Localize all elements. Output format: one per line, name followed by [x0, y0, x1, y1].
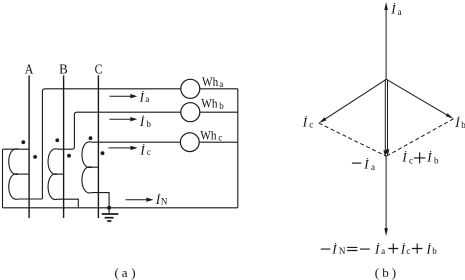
svg-text:İ: İ [454, 115, 460, 130]
svg-text:c: c [409, 156, 413, 166]
node: neutral junction dot [107, 206, 111, 210]
svg-text:C: C [95, 62, 103, 77]
arrow Ia annotation [110, 94, 138, 98]
wire a right of Wh_a to right bus [200, 88, 238, 90]
svg-text:N: N [161, 197, 168, 207]
svg-text:c: c [309, 120, 313, 130]
svg-text:İ: İ [139, 114, 145, 129]
svg-text:(b): (b) [375, 265, 396, 280]
wire b right of Wh_b to right bus [200, 111, 238, 113]
polarity dot CT3 secondary [101, 151, 105, 155]
equation -IN=-Ia+Ic+Ib [321, 242, 438, 257]
wire: left bus vertical [2, 149, 4, 208]
svg-text:a: a [145, 94, 149, 104]
svg-text:İ: İ [302, 115, 308, 130]
ground stem [108, 208, 110, 214]
svg-text:İ: İ [363, 157, 369, 172]
dashed line from Ib tip to sum point [386, 119, 453, 156]
phasor Ic+Ib double arrow right [386, 79, 390, 156]
wire: right bus vertical [237, 89, 239, 208]
svg-text:c: c [147, 147, 151, 157]
svg-text:Wh: Wh [200, 128, 217, 142]
polarity dot CT1 primary [21, 140, 25, 144]
svg-text:İ: İ [139, 142, 145, 157]
wire: CT1 top line to left bus [3, 148, 30, 150]
dashed line from Ic tip to sum point [319, 123, 387, 156]
svg-text:a: a [371, 162, 375, 172]
svg-text:a: a [219, 79, 223, 89]
svg-text:b: b [434, 156, 439, 166]
polarity dot CT2 secondary [67, 154, 71, 158]
svg-text:A: A [25, 62, 34, 77]
wire b: riser from CT2 and top wire to Wh_b [58, 112, 181, 149]
svg-text:İ: İ [390, 2, 396, 17]
polarity dot CT2 primary [55, 138, 59, 142]
wire c: CT3 top line to Wh_c [92, 141, 181, 143]
wattmeter Wh_c circle [180, 133, 199, 152]
svg-text:c: c [218, 133, 222, 143]
svg-text:İ: İ [139, 90, 145, 105]
phasor Ib arrow [386, 79, 453, 119]
phase A conductor [28, 75, 30, 218]
wire: CT1 bottom jog [19, 198, 43, 200]
wire c right of Wh_c to right bus [199, 141, 238, 143]
phase C conductor [97, 75, 99, 218]
CT1 mid tick [19, 173, 30, 175]
svg-text:(a): (a) [115, 265, 136, 280]
ground bar 2 [105, 217, 114, 219]
phasor -Ia double arrow left [383, 79, 387, 157]
label -Ia [352, 162, 361, 164]
phase B conductor [63, 75, 65, 218]
current transformer CT3 secondary loops (phase C) [82, 142, 92, 193]
current transformer CT2 secondary loops (phase B) [48, 149, 58, 200]
arrow Ic annotation [109, 146, 138, 150]
wire: CT2 bottom jog and drop to neutral [58, 199, 79, 208]
svg-text:B: B [59, 62, 68, 77]
arrow IN annotation [126, 198, 154, 202]
svg-text:İ: İ [401, 150, 407, 165]
current transformer CT1 secondary loops (phase A) [9, 149, 19, 199]
phasor Ia axis arrow up [384, 2, 388, 79]
wire: CT3 bottom jog and drop to neutral junction [92, 193, 109, 208]
wattmeter Wh_a circle [181, 79, 200, 98]
svg-text:İ: İ [155, 192, 161, 207]
ground bar 3 [107, 220, 111, 222]
svg-text:a: a [398, 7, 402, 17]
polarity dot CT1 secondary [33, 155, 37, 159]
svg-text:b: b [219, 101, 224, 111]
arrow Ib annotation [110, 117, 138, 121]
svg-text:İ: İ [426, 150, 432, 165]
svg-text:Wh: Wh [201, 97, 218, 111]
wattmeter Wh_b circle [181, 103, 200, 122]
phasor Ic arrow [319, 79, 387, 123]
wire: bottom neutral wire [3, 207, 238, 209]
svg-text:Wh: Wh [202, 75, 219, 89]
polarity dot CT3 primary [89, 136, 93, 140]
svg-text:b: b [461, 120, 465, 130]
phasor -IN axis arrow down [384, 156, 388, 236]
ground bar 1 [102, 213, 119, 215]
CT3 mid tick [92, 166, 99, 168]
svg-text:b: b [146, 119, 151, 129]
CT2 mid tick [58, 173, 64, 175]
wire a: riser from CT1 jog up and top wire to Wh_a [42, 89, 180, 199]
